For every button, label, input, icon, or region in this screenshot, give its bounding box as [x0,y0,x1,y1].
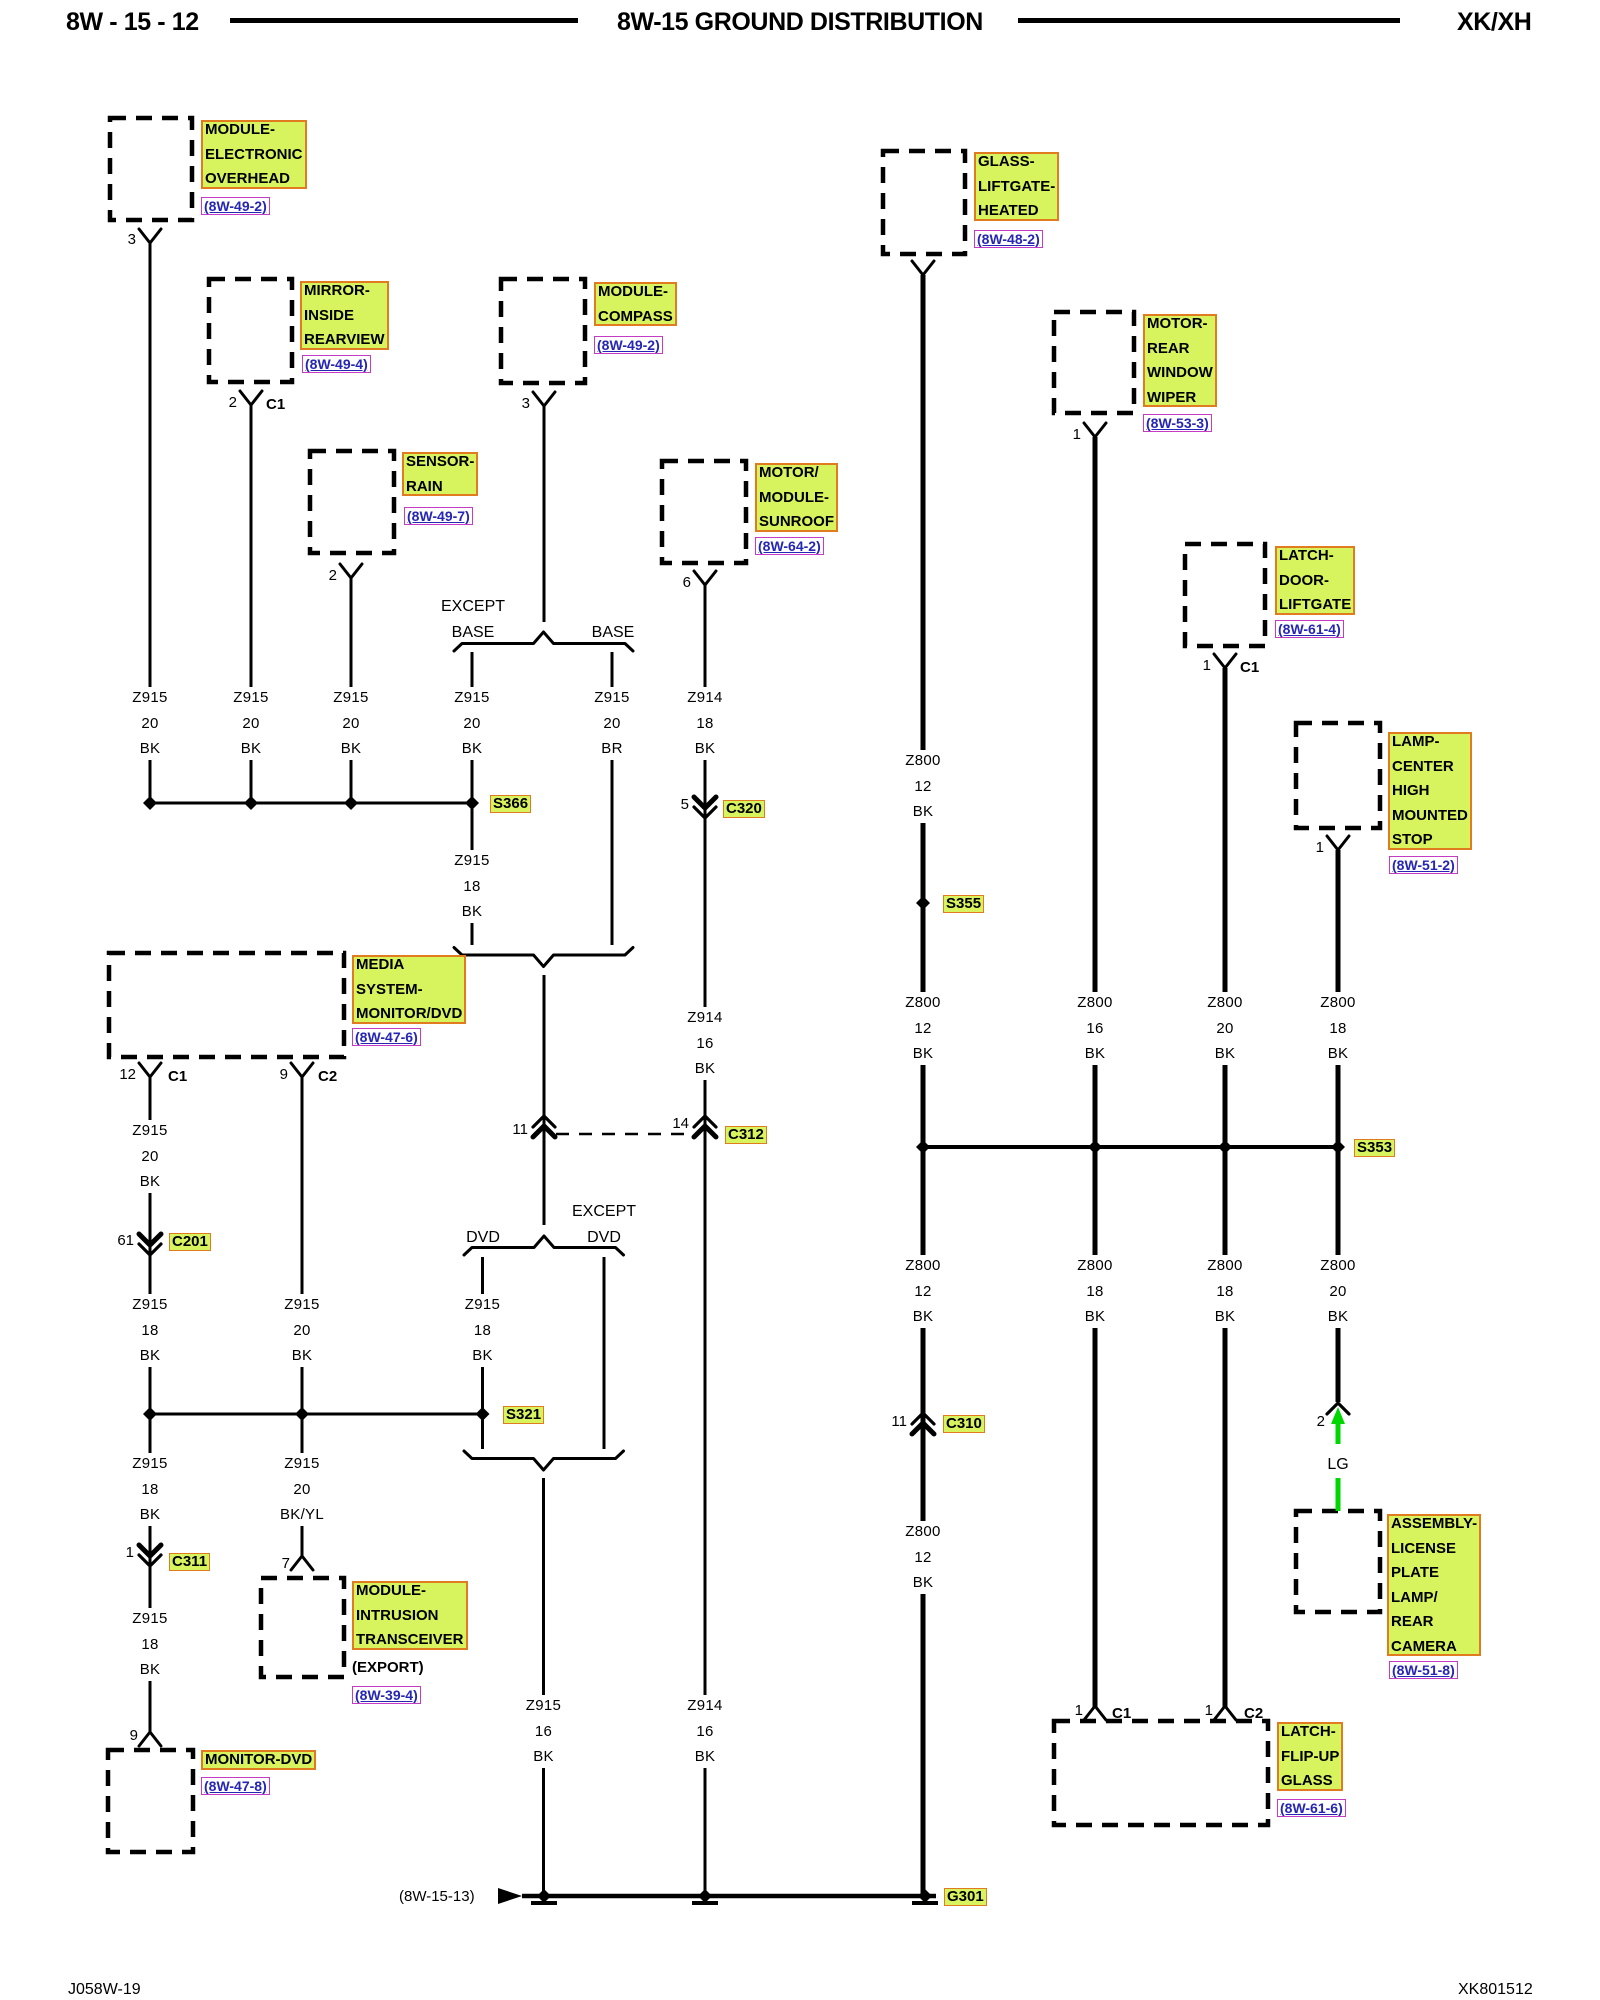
splice S353 junction [1331,1140,1345,1154]
header rule left [230,18,578,23]
branch brace EXCEPT BASE / BASE [454,632,633,651]
wire label Z800 20 BK below S353 (lamp) [1315,1255,1361,1328]
connector pin 9 C2 of media system [291,1063,313,1077]
wire label Z915 16 BK bottom [521,1695,567,1768]
pin number 2 (mirror) [197,395,237,411]
wire label Z915 18 BK dvd branch [460,1294,506,1367]
label (EXPORT) [352,1660,424,1676]
wire Z800 from liftgate latch [1223,668,1228,1707]
ground G301 bus [522,1894,936,1899]
connector C312 female half (right) [694,1116,716,1127]
wire Z915 from media C1 [149,1077,152,1733]
component box ASSEMBLY-LICENSE PLATE LAMP/REAR CAMERA [1296,1511,1380,1612]
component box LATCH-FLIP-UP GLASS [1054,1721,1268,1825]
wire label Z800 12 BK upper [900,750,946,823]
reference link 8W-47-6 [352,1028,421,1046]
junction media C1 wire S321 [143,1407,157,1421]
label MIRROR-INSIDE REARVIEW [300,281,389,350]
splice label S353 [1354,1139,1395,1157]
ground junction right [918,1889,932,1903]
connector C312 female half (left) [533,1116,555,1127]
component box MOTOR/MODULE-SUNROOF [662,461,746,563]
junction at rain sensor wire S366 [344,796,358,810]
connector label C310 [943,1415,985,1433]
connector C312 male half (left) [533,1126,555,1137]
reference link 8W-51-2 [1389,856,1458,874]
pin number 1 (liftgate latch) [1171,658,1211,674]
wire label Z915 18 BK below C201 [127,1294,173,1367]
wire Z915 20 BK from inside mirror [250,405,253,803]
header model code [1457,8,1531,37]
connector designator C1 (flipup) [1112,1706,1131,1722]
wire Z800 from stop lamp [1336,850,1341,1402]
branch brace DVD / EXCEPT DVD [464,1236,624,1255]
pin number 12 (media C1) [96,1067,136,1083]
ground bar left [531,1901,557,1905]
label LATCH-FLIP-UP GLASS [1277,1722,1343,1791]
connector C310 female half [912,1413,934,1424]
label MEDIA SYSTEM-MONITOR/DVD [352,955,466,1024]
connector pin 3 of overhead module [139,229,161,243]
connector C320 male half [694,797,716,808]
label MODULE-INTRUSION TRANSCEIVER [352,1581,468,1650]
connector designator C1 (media) [168,1069,187,1085]
cavity number 61 at C201 [94,1233,134,1249]
option label BASE right [592,624,635,641]
option label EXCEPT right [572,1203,636,1220]
component box MONITOR-DVD [108,1750,193,1852]
component box MIRROR-INSIDE REARVIEW [209,279,292,382]
wire Z915 20 BK from overhead module [149,243,152,803]
component box MODULE-ELECTRONIC OVERHEAD [110,118,192,220]
component box MODULE-INTRUSION TRANSCEIVER [261,1578,344,1677]
splice S355 junction [916,896,930,910]
label LAMP-CENTER HIGH MOUNTED STOP [1388,732,1472,850]
wire Z915 20 BK except-base branch [471,652,474,945]
header page number [66,8,199,37]
pin number 3 (overhead) [96,232,136,248]
connector pin 1 of center high mounted stop lamp [1327,836,1349,850]
footer left code [68,1981,141,1999]
component box GLASS-LIFTGATE-HEATED [883,151,965,254]
connector pin 2 of license plate lamp assembly [1327,1403,1349,1414]
junction wiper wire S353 [1088,1140,1102,1154]
wire label Z915 20 BK (mirror) [228,687,274,760]
wire Z915 except-dvd branch [603,1257,606,1449]
reference link 8W-49-7 [404,507,473,525]
connector label C311 [169,1553,210,1571]
splice S366 junction [465,796,479,810]
label LATCH-DOOR-LIFTGATE [1275,546,1355,615]
wire color label LG [1327,1456,1348,1473]
reference link 8W-61-4 [1275,620,1344,638]
wire label Z915 20 BK (except base) [449,687,495,760]
cavity number 11 at C312 [488,1122,528,1138]
connector pin 6 of sunroof motor [694,571,716,585]
cavity number 14 at C312 [649,1116,689,1132]
connector pin 3 of compass module [533,392,555,406]
component box MOTOR-REAR WINDOW WIPER [1054,312,1134,413]
connector designator C2 (media) [318,1069,337,1085]
pin number 1 (wiper) [1041,427,1081,443]
connector C310 male half [912,1423,934,1434]
connector pin 1 C2 of flip-up glass latch [1214,1706,1236,1720]
wire label Z800 18 BK (stop lamp) [1315,992,1361,1065]
connector C320 female half [694,807,716,818]
reference link 8W-49-4 [302,355,371,373]
connector C311 female half [139,1555,161,1566]
splice S366 bus [150,802,472,805]
connector C311 male half [139,1545,161,1556]
header rule right [1018,18,1400,23]
component box MODULE-COMPASS [501,279,585,383]
wire label Z800 12 BK above S353 [900,992,946,1065]
wire Z800 12 BK liftgate glass to ground [921,275,926,1894]
pin number 7 (intrusion) [250,1556,290,1572]
connector pin 9 of DVD monitor [139,1732,161,1746]
wire Z915 18 BK dvd branch [481,1257,484,1449]
connector pin of heated liftgate glass [912,261,934,275]
pin number 6 (sunroof) [651,575,691,591]
wire label Z914 16 BK bottom [682,1695,728,1768]
reference link 8W-48-2 [974,230,1043,248]
junction media C2 wire S321 [295,1407,309,1421]
component box SENSOR-RAIN [310,451,394,553]
option label DVD right [587,1229,621,1246]
splice label S366 [490,795,531,813]
wire label Z915 20 BK below media C2 [279,1294,325,1367]
connector label C320 [723,800,765,818]
ground junction middle [698,1889,712,1903]
ground label G301 [944,1888,987,1906]
merge brace below dvd branches [464,1451,624,1470]
continuation reference (8W-15-13) [399,1889,475,1905]
component box MEDIA SYSTEM-MONITOR/DVD [109,953,344,1057]
reference link 8W-61-6 [1277,1799,1346,1817]
ground bar middle [692,1901,718,1905]
splice S321 bus [150,1413,482,1416]
wire LG green segment lower [1336,1478,1341,1511]
wire label Z800 16 BK (wiper) [1072,992,1118,1065]
ground junction left [537,1889,551,1903]
connector pin 1 C1 of liftgate door latch [1214,654,1236,668]
label MOTOR-REAR WINDOW WIPER [1143,314,1217,407]
wire Z915 merged below brace [543,975,546,1225]
wire label Z915 18 BK below S321 left [127,1453,173,1526]
connector pin 12 C1 of media system [139,1063,161,1077]
wire label Z914 18 BK (sunroof) [682,687,728,760]
wire label Z915 18 BK below S366 [449,850,495,923]
wire label Z800 18 BK below S353 (wiper) [1072,1255,1118,1328]
label MONITOR-DVD [201,1750,316,1770]
connector designator C1 (liftgate latch) [1240,660,1259,676]
connector pin 2 C1 of inside mirror [240,391,262,405]
label GLASS-LIFTGATE-HEATED [974,152,1059,221]
wire Z915 20 BR base branch [611,652,614,945]
wire label Z800 12 BK below C310 [900,1521,946,1594]
wire LG green arrow head [1331,1407,1345,1424]
wire Z800 from rear wiper [1093,437,1098,1707]
splice S321 junction [476,1407,490,1421]
connector designator C1 (mirror) [266,397,285,413]
wire Z915 20 BK from rain sensor [350,578,353,803]
option label EXCEPT [441,598,505,615]
cavity number 1 at C311 [94,1545,134,1561]
wire label Z915 20 BK (rain) [328,687,374,760]
pin number 9 (media C2) [248,1067,288,1083]
wire label Z915 18 BK below C311 [127,1608,173,1681]
splice S353 bus [923,1145,1338,1149]
junction at overhead wire S366 [143,796,157,810]
merge brace below base branches [454,948,633,967]
connector pin 1 of rear wiper motor [1084,423,1106,437]
pin number 1 (stop lamp) [1284,840,1324,856]
wire Z915 16 BK to ground [542,1478,545,1894]
cavity number 11 at C310 [867,1414,907,1430]
connector label C312 [725,1126,767,1144]
option label DVD left [466,1229,500,1246]
connector C312 male half (right) [694,1126,716,1137]
connector designator C2 (flipup) [1244,1706,1263,1722]
label ASSEMBLY-LICENSE PLATE LAMP/REAR CAMERA [1387,1514,1481,1656]
pin number 2 (rain sensor) [297,568,337,584]
reference link 8W-53-3 [1143,414,1212,432]
header title [617,8,983,37]
connector pin 2 of rain sensor [340,564,362,578]
reference link 8W-49-2 (compass) [594,336,663,354]
reference link 8W-49-2 (overhead) [201,197,270,215]
reference link 8W-64-2 [755,537,824,555]
wire label Z915 20 BK below media C1 [127,1120,173,1193]
option label BASE left [452,624,495,641]
splice label S321 [503,1406,544,1424]
connector label C201 [169,1233,211,1251]
pin number 9 (monitor) [98,1728,138,1744]
pin number 1 (flipup C1) [1043,1703,1083,1719]
wire label Z915 20 BK/YL below S321 [279,1453,325,1526]
wire Z915 from media C2 [301,1077,304,1556]
reference link 8W-51-8 [1389,1661,1458,1679]
component box LAMP-CENTER HIGH MOUNTED STOP [1296,723,1380,828]
junction at mirror wire S366 [244,796,258,810]
label MOTOR/MODULE-SUNROOF [755,463,838,532]
label MODULE-COMPASS [594,282,677,326]
wire LG green segment upper [1336,1422,1341,1444]
junction latch wire S353 [1218,1140,1232,1154]
cavity number 5 at C320 [649,797,689,813]
wire label Z915 20 BK (overhead) [127,687,173,760]
connector pin 1 C1 of flip-up glass latch [1084,1706,1106,1720]
label SENSOR-RAIN [402,452,478,496]
junction liftgate glass wire S353 [916,1140,930,1154]
connector pin 7 of intrusion transceiver [291,1556,313,1570]
ground bar right [912,1901,938,1905]
component box LATCH-DOOR-LIFTGATE [1185,544,1265,646]
connector C201 female half [139,1244,161,1255]
splice label S355 [943,895,984,913]
wire label Z800 12 BK below S353 [900,1255,946,1328]
pin number 3 (compass) [490,396,530,412]
label MODULE-ELECTRONIC OVERHEAD [201,120,307,189]
wire label Z915 20 BR (base) [589,687,635,760]
wire label Z800 20 BK (latch) [1202,992,1248,1065]
reference link 8W-39-4 [352,1686,421,1704]
footer right code [1458,1981,1533,1999]
pin number 1 (flipup C2) [1173,1703,1213,1719]
wire Z914 from sunroof to ground [704,585,707,1894]
reference link 8W-47-8 [201,1777,270,1795]
wire label Z800 18 BK below S353 (latch) [1202,1255,1248,1328]
ground continuation triangle to 8W-15-13 [498,1888,522,1904]
cavity number 2 at license lamp connector [1285,1414,1325,1430]
connector C201 male half [139,1234,161,1245]
connector C312 mating dashes [556,1133,694,1136]
wire label Z914 16 BK mid [682,1007,728,1080]
wire Z915 20 BK from compass module [543,406,546,622]
